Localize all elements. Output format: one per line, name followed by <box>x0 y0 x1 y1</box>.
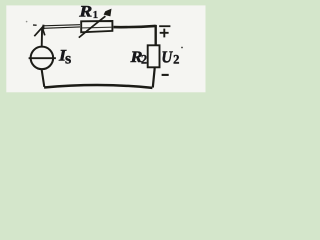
svg-text:2: 2 <box>141 53 147 67</box>
wire R2 bottom lead <box>153 68 155 88</box>
R1 arrowhead <box>104 9 112 17</box>
minus sign <box>162 74 169 76</box>
wire left bottom lead <box>42 70 45 87</box>
svg-text:R: R <box>78 4 93 21</box>
wire top-right segment <box>114 26 156 27</box>
current source arrow shaft <box>41 28 43 47</box>
paper panel <box>6 5 205 92</box>
speck dot right <box>181 47 183 49</box>
node top-left corner <box>42 25 44 30</box>
svg-text:1: 1 <box>93 9 99 21</box>
svg-text:U: U <box>161 47 173 66</box>
current source Is circle <box>31 47 54 70</box>
wire through R1 <box>82 26 113 29</box>
speck dash <box>33 24 37 26</box>
svg-text:s: s <box>65 50 71 67</box>
resistor R1 box <box>81 21 112 32</box>
wire bottom <box>44 85 152 88</box>
R1 arrow shaft <box>79 16 106 37</box>
current source bar <box>29 57 56 59</box>
wire top-left lower stroke <box>44 27 81 28</box>
svg-text:2: 2 <box>173 53 179 67</box>
current source arrowhead wings <box>34 27 45 36</box>
wire right vertical to R2 <box>154 25 156 45</box>
wire top-left upper stroke <box>44 25 81 26</box>
plus sign <box>160 29 169 38</box>
speck dot left <box>26 21 28 23</box>
resistor R2 box <box>148 45 160 67</box>
plus terminal bar <box>159 25 170 27</box>
